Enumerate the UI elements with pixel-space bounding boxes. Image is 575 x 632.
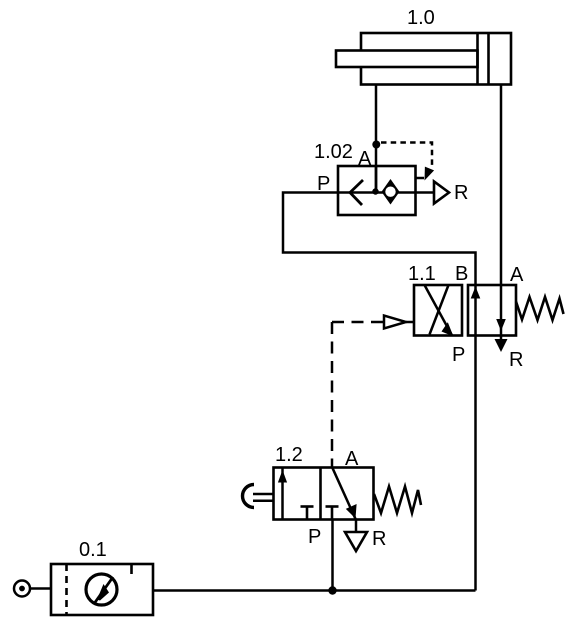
push button of 1.2 (243, 485, 255, 508)
pilot dashed wire of 1.02 (381, 143, 432, 168)
exhaust arrow R of 1.1 (500, 336, 503, 342)
svg-text:1.2: 1.2 (275, 444, 303, 466)
flow line A to R (down arrow) in 1.1 right box (500, 285, 503, 336)
svg-text:1.02: 1.02 (314, 141, 353, 163)
blocked port T in 1.2 right box (326, 507, 339, 520)
node junction on supply line (328, 586, 336, 594)
pilot arrowhead at 1.02 R (425, 167, 435, 181)
svg-text:R: R (509, 349, 523, 371)
air service unit 0.1 (51, 564, 153, 615)
exhaust R of 1.02 (416, 191, 435, 194)
wire 1.02 P loop to 1.1 B (283, 193, 476, 286)
flow arrow P to A in 1.2 left box (281, 468, 284, 520)
check valve of 1.02 (diamond with seat) (382, 179, 400, 205)
svg-text:A: A (358, 148, 372, 170)
flow diagonal A to R in 1.2 right box (332, 468, 356, 520)
wire source to 0.1 (30, 587, 51, 590)
svg-text:R: R (372, 528, 386, 550)
svg-text:1.0: 1.0 (407, 7, 435, 29)
svg-text:A: A (510, 264, 524, 286)
compressed air source (14, 581, 30, 597)
crossed arrows in 1.1 left box (425, 285, 453, 336)
spring of 1.1 (516, 297, 564, 320)
valve 1.2 (3/2-way push button, spring return) (274, 468, 374, 520)
tick on 1.02 right edge (416, 177, 425, 180)
node on A line (junction dot) (372, 141, 380, 149)
svg-text:P: P (308, 526, 321, 548)
svg-text:0.1: 0.1 (79, 539, 107, 561)
pilot dashed wire from 1.2 A to 1.1 (332, 322, 379, 461)
svg-text:B: B (455, 263, 468, 285)
svg-text:A: A (345, 448, 359, 470)
svg-text:P: P (452, 344, 465, 366)
wire cylinder left port to 1.02 A (375, 85, 378, 193)
wire cylinder right port to 1.1 A (500, 85, 503, 286)
flow line P to B (up arrow) in 1.1 right box (474, 285, 477, 336)
pilot arrow of 1.1 (379, 321, 384, 324)
cylinder 1.0 (336, 33, 511, 85)
quick exhaust valve 1.02 (338, 166, 416, 215)
svg-text:R: R (454, 182, 468, 204)
wire 1.1 P to supply line (474, 336, 477, 591)
conditioning arrow inside 0.1 (94, 577, 114, 605)
wire 1.2 P to supply line (331, 520, 334, 591)
spring of 1.2 (374, 487, 421, 514)
supply line (153, 589, 476, 592)
exhaust R of 1.2 (355, 520, 358, 533)
blocked port T in 1.2 left box (301, 507, 314, 520)
svg-text:1.1: 1.1 (408, 263, 436, 285)
valve 1.1 (4/2-way, pilot operated, spring return) (414, 285, 516, 336)
